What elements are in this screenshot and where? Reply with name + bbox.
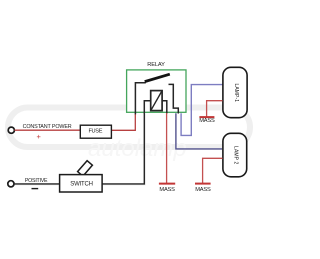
wire: switch to relay coil pin 86 (black) — [102, 113, 144, 184]
terminal circle: constant power — [8, 127, 14, 133]
svg-text:RELAY: RELAY — [147, 62, 165, 68]
relay coil left lead (pin 86) — [144, 101, 150, 114]
svg-text:LAMP 2: LAMP 2 — [233, 146, 239, 164]
watermark pill band — [8, 108, 250, 148]
svg-text:SWITCH: SWITCH — [70, 181, 92, 187]
svg-text:MASS: MASS — [199, 118, 215, 124]
svg-text:POSITIVE: POSITIVE — [25, 178, 48, 184]
wire: positive terminal to switch (black) — [14, 183, 59, 185]
switch S1 lever — [78, 161, 93, 177]
svg-text:FUSE: FUSE — [88, 128, 102, 134]
relay pin 30 lead — [135, 83, 145, 115]
svg-text:autolamp: autolamp — [88, 135, 187, 162]
fuse F1 — [80, 125, 111, 138]
svg-text:CONSTANT POWER: CONSTANT POWER — [23, 124, 72, 130]
terminal circle: positive — [8, 181, 14, 187]
svg-text:MASS: MASS — [159, 187, 175, 193]
relay switch arm — [145, 74, 170, 81]
switch S1 body — [60, 175, 103, 192]
wire: relay 87 to lamp-2 (dark blue) — [176, 113, 222, 149]
lamp L1 — [223, 67, 247, 117]
wire: relay pin 85 to mass (red) — [166, 113, 168, 184]
ground bar mass 2 — [195, 183, 211, 185]
wire: lamp-1 to mass (red) — [207, 101, 223, 117]
svg-text:MASS: MASS — [195, 187, 211, 193]
wire: lamp-2 to mass (red) — [203, 158, 223, 183]
wire: constant power to fuse (red) — [15, 129, 81, 131]
wire: relay 87 to lamp-1 (blue) — [181, 85, 222, 136]
label - (minus) — [32, 188, 39, 190]
svg-text:LAMP-1: LAMP-1 — [233, 83, 239, 102]
wire shadow: positive/switch run — [15, 114, 146, 185]
relay coil diagonal — [151, 91, 162, 110]
svg-text:+: + — [37, 132, 41, 141]
ground bar mass 3 — [199, 116, 214, 118]
relay contact 87 lead — [169, 84, 179, 113]
relay coil — [151, 91, 162, 111]
wire: fuse to relay pin 30 (red) — [111, 114, 135, 131]
lamp L2 — [223, 133, 247, 177]
ground bar mass 1 — [159, 183, 175, 185]
relay box (green) — [127, 70, 186, 112]
relay coil right lead (pin 85) — [162, 101, 167, 114]
